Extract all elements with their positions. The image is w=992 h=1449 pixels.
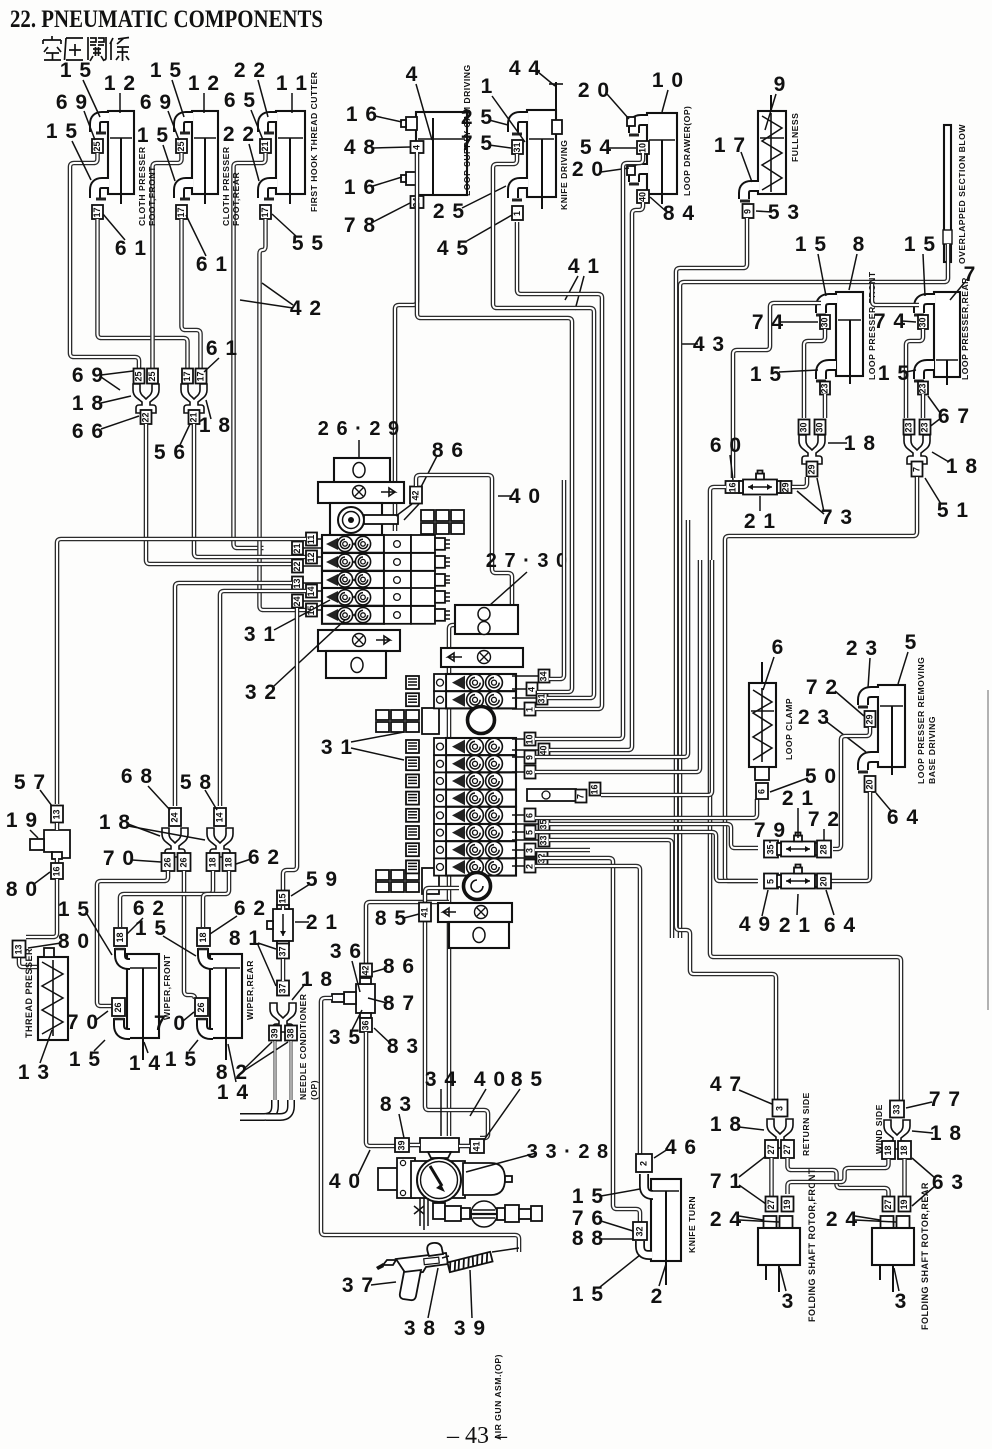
joint 54 on loop drawer top xyxy=(637,141,649,154)
loop drawer bottom elbow xyxy=(634,169,648,182)
svg-text:5 0: 5 0 xyxy=(805,765,837,788)
svg-text:2 1: 2 1 xyxy=(782,787,814,810)
fitting 55 on C3 bottom xyxy=(260,205,271,219)
LP rear top elbow xyxy=(919,299,935,313)
svg-text:28: 28 xyxy=(819,844,829,854)
svg-text:22. PNEUMATIC COMPONENTS: 22. PNEUMATIC COMPONENTS xyxy=(10,6,323,33)
tube 31 to knife top xyxy=(493,154,594,698)
svg-text:8 5: 8 5 xyxy=(375,907,407,930)
svg-text:1 5: 1 5 xyxy=(904,233,936,256)
svg-text:1 6: 1 6 xyxy=(346,103,378,126)
wiper front top elbow xyxy=(120,948,130,964)
cylinder 4 loop supply cam driving body xyxy=(416,112,467,195)
svg-text:17: 17 xyxy=(196,371,206,381)
svg-text:NEEDLE CONDITIONER: NEEDLE CONDITIONER xyxy=(298,993,308,1100)
svg-text:1 8: 1 8 xyxy=(946,455,978,478)
joint 63b right xyxy=(899,1197,911,1212)
Y branch 18 under LP front xyxy=(799,435,825,464)
svg-text:LOOP DRAWER(OP): LOOP DRAWER(OP) xyxy=(682,106,692,196)
tube C3 top port down to manifold xyxy=(234,153,266,548)
svg-text:8: 8 xyxy=(853,233,866,256)
tube 70L to wiper front bottom xyxy=(97,871,168,1006)
svg-text:5: 5 xyxy=(525,830,535,835)
joint 86b xyxy=(360,964,372,977)
svg-text:5 8: 5 8 xyxy=(180,771,212,794)
svg-text:1 8: 1 8 xyxy=(710,1113,742,1136)
tube cyl5 top to valve 79 out xyxy=(833,727,870,849)
joint 71b left xyxy=(766,1197,778,1212)
svg-text:4 5: 4 5 xyxy=(437,237,469,260)
svg-text:8 6: 8 6 xyxy=(383,955,415,978)
svg-text:8 1: 8 1 xyxy=(229,927,261,950)
joint 62 right xyxy=(223,853,236,871)
label 31b leaders xyxy=(351,732,404,760)
svg-text:5 6: 5 6 xyxy=(154,441,186,464)
cloth presser foot front C1 bottom elbow fitting xyxy=(95,183,109,198)
svg-text:1 5: 1 5 xyxy=(750,363,782,386)
svg-text:1 5: 1 5 xyxy=(137,124,169,147)
joint 71 left xyxy=(765,1140,778,1158)
joint 58 xyxy=(214,808,226,826)
joint 67 left into Y4r xyxy=(904,420,915,435)
svg-text:9: 9 xyxy=(525,755,535,760)
tube LP rear top supply xyxy=(872,284,919,305)
tube C1 top port to joint 25 xyxy=(70,153,139,368)
label 42 leaders xyxy=(240,283,293,308)
svg-text:1 8: 1 8 xyxy=(930,1122,962,1145)
drain + outlet line xyxy=(414,1198,542,1230)
solenoid valve manifold 27-30 xyxy=(376,605,523,948)
svg-text:5 1: 5 1 xyxy=(937,499,969,522)
svg-text:8 5: 8 5 xyxy=(511,1068,543,1091)
svg-text:41: 41 xyxy=(420,907,430,917)
tube 34 up xyxy=(549,480,564,679)
svg-text:3 1: 3 1 xyxy=(321,736,353,759)
svg-text:3 9: 3 9 xyxy=(454,1317,486,1340)
svg-text:FOLDING SHAFT ROTOR,FRONT: FOLDING SHAFT ROTOR,FRONT xyxy=(807,1168,817,1322)
tube 40a to loop drawer bottom xyxy=(549,202,643,750)
svg-text:16: 16 xyxy=(590,784,600,794)
check valve 35 assembly xyxy=(356,984,375,1013)
svg-text:7 2: 7 2 xyxy=(806,676,838,699)
svg-text:4: 4 xyxy=(527,687,537,692)
svg-text:3 3 · 2 8: 3 3 · 2 8 xyxy=(527,1141,609,1163)
tube 1 to knife bottom xyxy=(517,222,602,709)
svg-text:8 6: 8 6 xyxy=(432,439,464,462)
Y branch 18 needle xyxy=(270,1003,296,1032)
speed controller 61 on C2 bottom xyxy=(176,205,187,219)
wiper rear top elbow xyxy=(203,948,213,964)
svg-text:5 5: 5 5 xyxy=(292,232,324,255)
svg-text:35: 35 xyxy=(539,819,549,829)
svg-text:5: 5 xyxy=(905,631,918,654)
svg-text:THREAD PRESSER: THREAD PRESSER xyxy=(24,948,34,1038)
joint 29 out of valve 21a xyxy=(781,481,792,493)
tube 3 stub xyxy=(535,848,590,853)
svg-text:22: 22 xyxy=(141,412,151,422)
svg-text:13: 13 xyxy=(52,809,62,819)
svg-text:20: 20 xyxy=(865,779,875,789)
svg-text:LOOP PRESSER,REAR: LOOP PRESSER,REAR xyxy=(960,277,970,380)
svg-text:LOOP PRESSER REMOVING: LOOP PRESSER REMOVING xyxy=(916,657,926,784)
T manifold 34 xyxy=(420,1138,459,1152)
check valve 21c xyxy=(777,833,819,857)
cylinder 5 loop presser removing body xyxy=(878,685,905,775)
joint 51 under Y xyxy=(912,462,923,477)
svg-text:3 1: 3 1 xyxy=(244,623,276,646)
joint 84 on loop drawer bottom xyxy=(637,190,649,203)
svg-text:16: 16 xyxy=(52,866,62,876)
svg-text:25: 25 xyxy=(92,141,102,151)
svg-text:KNIFE TURN: KNIFE TURN xyxy=(687,1196,697,1253)
svg-text:7 0: 7 0 xyxy=(103,847,135,870)
svg-text:20: 20 xyxy=(819,876,829,886)
manifold 26-29 left connector joints xyxy=(306,533,317,546)
first hook thread cutter C3 top elbow fitting xyxy=(263,117,277,132)
tube C3 bottom port down to manifold xyxy=(260,219,307,610)
stub xyxy=(410,1143,420,1148)
svg-text:4 0: 4 0 xyxy=(509,485,541,508)
svg-text:2 1: 2 1 xyxy=(744,510,776,533)
svg-text:BASE DRIVING: BASE DRIVING xyxy=(927,716,937,784)
svg-text:3 4: 3 4 xyxy=(425,1068,457,1091)
cylinder 7 loop presser rear body xyxy=(934,292,960,385)
cloth presser foot front C1 top elbow fitting xyxy=(95,117,109,132)
svg-text:6 2: 6 2 xyxy=(234,897,266,920)
svg-text:26: 26 xyxy=(179,857,189,867)
first hook thread cutter C3 bottom elbow fitting xyxy=(263,183,277,198)
label 18 leaders xyxy=(128,824,205,840)
joint 63 left xyxy=(882,1141,895,1159)
svg-text:1: 1 xyxy=(525,707,535,712)
svg-text:3: 3 xyxy=(775,1106,785,1111)
tube LP front 23 down xyxy=(823,394,828,418)
joint 81b xyxy=(277,981,289,996)
joint 24 b xyxy=(780,1216,793,1228)
joint 80b xyxy=(13,941,26,958)
svg-text:10: 10 xyxy=(525,734,535,744)
svg-text:6 9: 6 9 xyxy=(72,364,104,387)
svg-text:7 1: 7 1 xyxy=(710,1170,742,1193)
joint 70 on wiper front bottom xyxy=(112,998,125,1016)
svg-text:4 2: 4 2 xyxy=(290,297,322,320)
svg-text:17: 17 xyxy=(92,207,102,217)
svg-text:6 8: 6 8 xyxy=(121,765,153,788)
tube cyl5 bottom to valve 49 out xyxy=(831,792,870,881)
cylinder 4 top port xyxy=(406,117,417,130)
joint 57 xyxy=(51,806,63,823)
tube manifold line 13 down to joint 68 xyxy=(175,583,292,806)
svg-text:9: 9 xyxy=(774,73,787,96)
svg-text:18: 18 xyxy=(883,1145,893,1155)
svg-text:1 5: 1 5 xyxy=(69,1048,101,1071)
svg-text:1 8: 1 8 xyxy=(199,414,231,437)
svg-text:WIPER,REAR: WIPER,REAR xyxy=(245,960,255,1020)
joint 78 on cylinder 4 bottom xyxy=(411,196,424,208)
Y branch 18 wiper supply B xyxy=(207,828,233,857)
joint 46 xyxy=(636,1154,652,1172)
svg-text:6: 6 xyxy=(772,636,785,659)
fitting 65 on C3 top xyxy=(260,139,271,153)
elbow block 19 xyxy=(30,830,70,859)
svg-text:27: 27 xyxy=(883,1199,893,1209)
overlapped section blow pipe xyxy=(944,125,951,262)
wiper front cylinder body xyxy=(127,954,159,1060)
tube 32 to knife turn bottom xyxy=(542,858,640,1222)
joint 25 into Y1 xyxy=(147,369,158,384)
svg-text:30: 30 xyxy=(820,317,830,327)
svg-text:18: 18 xyxy=(224,857,234,867)
svg-text:1 8: 1 8 xyxy=(301,968,333,991)
svg-text:1: 1 xyxy=(512,211,522,216)
svg-text:41: 41 xyxy=(472,1141,482,1151)
svg-text:8 2: 8 2 xyxy=(216,1061,248,1084)
fullness elbow xyxy=(744,186,759,199)
svg-text:30: 30 xyxy=(918,317,928,327)
svg-text:2 5: 2 5 xyxy=(461,106,493,129)
wiper front bottom elbow xyxy=(119,1018,130,1034)
tube 33 down joining 43 xyxy=(549,840,672,938)
needle nozzle tube left xyxy=(274,1041,277,1103)
svg-text:24: 24 xyxy=(170,812,180,822)
cylinder cloth presser foot rear C2 body xyxy=(192,111,218,204)
svg-text:42: 42 xyxy=(411,490,421,500)
svg-text:1 3: 1 3 xyxy=(18,1061,50,1084)
joint 82 left xyxy=(269,1026,281,1041)
svg-text:2 4: 2 4 xyxy=(710,1208,742,1231)
thread presser cylinder 13 xyxy=(38,957,68,1040)
joint 72b xyxy=(817,841,831,858)
tube to rotor rear right xyxy=(902,1159,907,1197)
joint 49 xyxy=(764,874,778,889)
svg-text:7 4: 7 4 xyxy=(752,311,784,334)
svg-text:7 0: 7 0 xyxy=(67,1011,99,1034)
svg-text:KNIFE DRIVING: KNIFE DRIVING xyxy=(559,140,569,210)
svg-text:8 0: 8 0 xyxy=(58,930,90,953)
joint 25 into Y1 xyxy=(134,369,145,384)
svg-text:7 8: 7 8 xyxy=(344,214,376,237)
svg-text:6 2: 6 2 xyxy=(248,846,280,869)
svg-text:8 8: 8 8 xyxy=(572,1227,604,1250)
svg-text:8 3: 8 3 xyxy=(380,1093,412,1116)
wiper rear cylinder body xyxy=(210,954,242,1060)
tube manifold to needle branch xyxy=(283,608,297,891)
tube LP front top supply to valve 60 xyxy=(733,303,821,478)
joint 74 right into Y3r xyxy=(815,420,826,435)
svg-text:2: 2 xyxy=(639,1161,649,1166)
joint 67 right into Y4r xyxy=(920,420,931,435)
cloth presser foot rear C2 bottom elbow fitting xyxy=(179,183,193,198)
tube C2 top port to joint 25 xyxy=(153,153,182,368)
joint 63 right xyxy=(898,1141,911,1159)
svg-text:7 9: 7 9 xyxy=(754,819,786,842)
svg-text:1 5: 1 5 xyxy=(165,1048,197,1071)
joint 24 d xyxy=(897,1216,910,1228)
svg-text:7 7: 7 7 xyxy=(929,1088,961,1111)
joint 77 xyxy=(890,1101,904,1118)
svg-text:34: 34 xyxy=(539,671,549,681)
svg-text:17: 17 xyxy=(260,207,270,217)
joint 85 xyxy=(419,903,431,922)
joint 63b left xyxy=(883,1197,895,1212)
joint 70 left xyxy=(162,853,175,871)
joint 83a xyxy=(360,1018,372,1032)
joint on LP front bottom xyxy=(820,382,830,395)
svg-text:2 5: 2 5 xyxy=(433,200,465,223)
svg-text:2 3: 2 3 xyxy=(798,706,830,729)
svg-text:7 3: 7 3 xyxy=(821,506,853,529)
svg-text:29: 29 xyxy=(781,482,791,492)
svg-text:1 5: 1 5 xyxy=(150,59,182,82)
svg-text:2 0: 2 0 xyxy=(572,158,604,181)
kanji subtitle (air pressure related) drawn as strokes xyxy=(43,36,129,61)
tube LP rear 30 to joint 23 xyxy=(906,329,923,418)
svg-text:33: 33 xyxy=(892,1104,902,1114)
tube 62L to wiper front top xyxy=(120,871,213,927)
loop clamp cylinder 6 body xyxy=(749,683,776,767)
svg-text:39: 39 xyxy=(270,1028,280,1038)
speed controller 69 on C1 top xyxy=(92,139,103,153)
svg-text:31: 31 xyxy=(512,142,522,152)
svg-text:2 6 · 2 9: 2 6 · 2 9 xyxy=(318,418,400,440)
label 24 leaders xyxy=(739,1216,779,1222)
tube manifold line 14 down to joint 58 xyxy=(220,591,306,806)
svg-text:2: 2 xyxy=(651,1285,664,1308)
joint 71 right xyxy=(781,1140,794,1158)
svg-text:1 9: 1 9 xyxy=(6,809,38,832)
svg-text:5 9: 5 9 xyxy=(306,868,338,891)
needle nozzle tube right xyxy=(290,1041,293,1103)
svg-text:2 0: 2 0 xyxy=(578,79,610,102)
tube 8 up xyxy=(535,560,700,772)
svg-text:6 7: 6 7 xyxy=(938,405,970,428)
svg-text:3 8: 3 8 xyxy=(404,1317,436,1340)
regulator filter 33-28 xyxy=(378,1158,512,1202)
svg-text:2 1: 2 1 xyxy=(306,911,338,934)
svg-text:RETURN SIDE: RETURN SIDE xyxy=(801,1092,811,1156)
joint 64a xyxy=(865,776,876,792)
loop drawer top elbow xyxy=(634,120,648,133)
check valve 21a xyxy=(739,471,781,495)
tube 4 to cylinder 4 xyxy=(417,204,572,692)
svg-text:6 4: 6 4 xyxy=(824,914,856,937)
svg-text:5 3: 5 3 xyxy=(768,201,800,224)
knife cyl top elbow xyxy=(513,117,528,132)
tube 35 plug to air gun supply xyxy=(321,998,519,1252)
joint 76-88 xyxy=(633,1222,647,1240)
stub 59 xyxy=(281,906,286,910)
tube 85 down to regulator right xyxy=(425,922,488,1138)
joint 79 xyxy=(764,841,778,858)
tube 70R to wiper rear bottom xyxy=(184,871,195,999)
svg-text:13: 13 xyxy=(14,944,24,954)
svg-text:42: 42 xyxy=(361,965,371,975)
svg-text:6 1: 6 1 xyxy=(196,253,228,276)
scan edge artifact xyxy=(987,690,989,1010)
svg-text:2 1: 2 1 xyxy=(779,914,811,937)
tube 2 to knife turn top xyxy=(535,866,640,1154)
svg-text:8 3: 8 3 xyxy=(387,1035,419,1058)
tube 43 fullness line down to return side xyxy=(676,218,776,1099)
svg-text:31: 31 xyxy=(537,693,547,703)
svg-text:25: 25 xyxy=(147,371,157,381)
tube cross to rotor front xyxy=(788,1159,889,1194)
svg-text:19: 19 xyxy=(899,1199,909,1209)
svg-text:2 2: 2 2 xyxy=(223,123,255,146)
tube LP rear 23 down xyxy=(921,394,926,418)
svg-text:8 4: 8 4 xyxy=(663,202,695,225)
svg-text:FOLDING SHAFT ROTOR,REAR: FOLDING SHAFT ROTOR,REAR xyxy=(920,1182,930,1330)
svg-text:1 8: 1 8 xyxy=(72,392,104,415)
svg-text:7 0: 7 0 xyxy=(154,1012,186,1035)
svg-text:26: 26 xyxy=(113,1002,123,1012)
svg-text:4 9: 4 9 xyxy=(739,913,771,936)
joint 73 under Y xyxy=(807,462,818,477)
label 73 leaders xyxy=(797,478,824,514)
Y branch 18 return side xyxy=(767,1119,793,1148)
rod 44 on knife cylinder xyxy=(555,82,557,112)
tube branch to joint 86b xyxy=(366,902,449,964)
tube blow line down xyxy=(680,244,948,938)
knife turn bottom elbow xyxy=(640,1241,652,1255)
svg-text:FOOT,REAR: FOOT,REAR xyxy=(231,172,241,226)
check valve 21d xyxy=(777,865,819,889)
svg-text:1 6: 1 6 xyxy=(344,176,376,199)
svg-text:3: 3 xyxy=(895,1290,908,1313)
joint 62 left xyxy=(207,853,220,871)
air gun 37 xyxy=(376,1243,448,1300)
joint 50 xyxy=(756,783,768,799)
cylinder cloth presser foot front C1 body xyxy=(108,111,134,204)
svg-text:21: 21 xyxy=(260,141,270,151)
joint 66 under Y1 xyxy=(141,410,152,424)
svg-text:4 0: 4 0 xyxy=(474,1068,506,1091)
svg-text:FULLNESS: FULLNESS xyxy=(790,113,800,162)
svg-text:1 5: 1 5 xyxy=(795,233,827,256)
svg-text:FOOT,FRONT: FOOT,FRONT xyxy=(147,166,157,226)
solenoid valve manifold 26-29 xyxy=(318,458,464,678)
svg-text:6 6: 6 6 xyxy=(72,420,104,443)
svg-text:14: 14 xyxy=(306,586,316,596)
label 82 leaders xyxy=(245,1042,288,1070)
svg-text:18: 18 xyxy=(115,932,125,942)
joint 24 a xyxy=(764,1216,777,1228)
Y branch fitting 18 left xyxy=(133,384,159,413)
LP front bottom elbow xyxy=(821,365,836,379)
svg-text:7 5: 7 5 xyxy=(461,132,493,155)
svg-text:LOOP SUPPLY CAM DRIVING: LOOP SUPPLY CAM DRIVING xyxy=(462,64,472,196)
svg-text:6: 6 xyxy=(525,813,535,818)
joint 72a xyxy=(865,711,876,727)
svg-text:4 0: 4 0 xyxy=(329,1170,361,1193)
tube 16 up xyxy=(601,560,712,795)
svg-text:40: 40 xyxy=(638,192,648,202)
LP front top elbow xyxy=(821,299,837,313)
joint 24 c xyxy=(881,1216,894,1228)
tube 36 down to T manifold xyxy=(366,1032,395,1146)
svg-text:25: 25 xyxy=(134,371,144,381)
svg-text:6: 6 xyxy=(757,789,767,794)
svg-text:6 5: 6 5 xyxy=(224,89,256,112)
label 71 leaders xyxy=(739,1156,766,1204)
joint 70 on wiper rear bottom xyxy=(195,998,208,1016)
svg-text:1 5: 1 5 xyxy=(46,120,78,143)
svg-text:LOOP CLAMP: LOOP CLAMP xyxy=(784,698,794,760)
svg-text:37: 37 xyxy=(278,983,288,993)
svg-text:1 5: 1 5 xyxy=(60,59,92,82)
svg-text:4 4: 4 4 xyxy=(509,57,541,80)
wiper rear bottom elbow xyxy=(202,1018,213,1034)
